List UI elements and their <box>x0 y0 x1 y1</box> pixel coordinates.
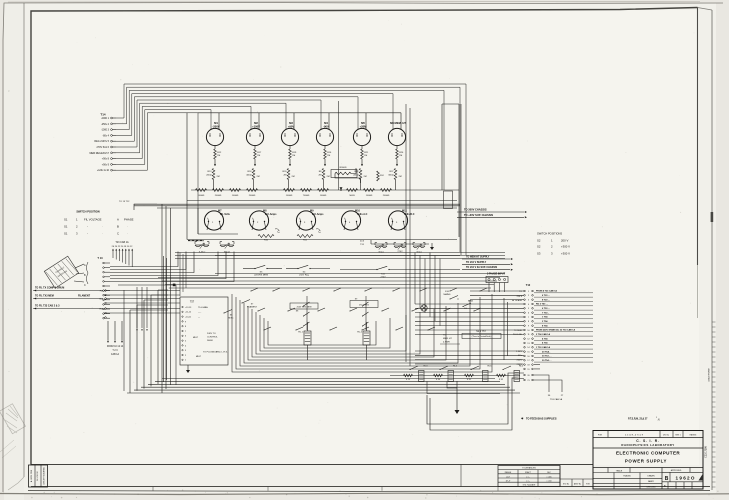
switch S7 FILAMENT <box>242 300 250 304</box>
svg-text:7000Ω: 7000Ω <box>303 195 310 197</box>
wire <box>493 283 495 293</box>
wire <box>371 243 429 245</box>
svg-text:TO FIL T23 CAB 2 & 3: TO FIL T23 CAB 2 & 3 <box>35 305 60 308</box>
terminal T12 pin 20 <box>524 374 526 376</box>
svg-text:-: - <box>8 308 9 311</box>
svg-text:FABRY: FABRY <box>648 480 655 483</box>
switch S9 270V REG <box>350 301 378 308</box>
meter M9 <box>296 211 315 230</box>
wire <box>360 180 362 191</box>
wire to T12 <box>415 359 524 361</box>
resistor R24 <box>377 171 380 181</box>
terminal T5T pin +10-11 <box>182 316 183 317</box>
terminal T12 pin 8 <box>524 321 526 323</box>
svg-text:-90V: -90V <box>323 125 329 129</box>
terminal T12 pin 11 <box>524 334 526 336</box>
terminal T5T pin +11-12 <box>182 311 183 312</box>
terminal T13 pin 12 <box>103 313 105 315</box>
svg-text:2M: 2M <box>364 176 367 178</box>
terminal T5T pin 2 <box>182 354 183 355</box>
wire <box>286 268 298 270</box>
wire <box>128 250 130 266</box>
svg-text:POWER SUPPLY: POWER SUPPLY <box>625 458 667 463</box>
switch S5 220VRS MEM <box>254 268 255 269</box>
wire cascade to T12 <box>419 256 421 309</box>
terminal T5T pin 5 <box>182 340 183 341</box>
wire web braid <box>236 297 480 369</box>
wire <box>307 345 309 360</box>
wire <box>365 296 367 330</box>
wire <box>122 250 124 263</box>
wire <box>289 146 291 149</box>
svg-text:2M: 2M <box>292 176 295 178</box>
switch contact <box>474 308 481 311</box>
wire web braid <box>232 294 492 372</box>
terminal T12 pin 18 <box>524 364 526 366</box>
svg-text:10″-4″: 10″-4″ <box>506 481 511 483</box>
switch contact <box>420 288 427 291</box>
svg-text:1M: 1M <box>217 155 220 157</box>
terminal T12 pin 17 <box>524 359 526 361</box>
svg-text:S3: S3 <box>537 252 541 256</box>
svg-text:FROM 10 12 14: FROM 10 12 14 <box>107 346 124 348</box>
wire T13 to metering pot <box>110 252 186 270</box>
resistor R 31 <box>465 374 474 377</box>
svg-text:-: - <box>8 168 9 171</box>
svg-text:+90v 9: +90v 9 <box>102 163 110 166</box>
wire T14 pin 3 to bus <box>116 90 444 190</box>
wire <box>115 250 117 260</box>
terminal T13 pin 2 <box>103 267 105 269</box>
switch contact <box>363 322 369 326</box>
wire <box>175 285 177 385</box>
wire <box>344 222 346 230</box>
wire to T53 <box>534 375 550 392</box>
resistor R10 <box>258 235 274 238</box>
svg-text:220VRS MEM: 220VRS MEM <box>254 275 268 277</box>
wire meter panel frame <box>186 113 188 240</box>
lamp <box>421 305 427 311</box>
wire <box>405 104 407 362</box>
terminal T12 pin 10 <box>524 329 526 331</box>
wire to T12 <box>415 325 524 327</box>
svg-text:+10-11: +10-11 <box>185 317 192 319</box>
wire web braid <box>256 312 420 354</box>
svg-text:400Ω: 400Ω <box>246 175 252 177</box>
terminal T13 lower pin <box>105 298 107 300</box>
svg-text:TO 15 T12: TO 15 T12 <box>119 201 130 203</box>
potentiometer 50(a) <box>375 242 377 244</box>
switch contact <box>450 288 457 291</box>
meter M5 <box>353 128 370 145</box>
wire bottom loop <box>430 378 524 430</box>
svg-text:M4: M4 <box>324 121 328 125</box>
wire <box>131 250 133 267</box>
svg-text:30 T54 - -: 30 T54 - - <box>542 359 552 362</box>
wire web horizontals <box>158 277 500 279</box>
svg-text:1 T53 CAB 1A: 1 T53 CAB 1A <box>536 346 550 349</box>
meter M10 <box>341 211 360 230</box>
wire to T53 <box>136 287 138 328</box>
svg-text:T53 CAB 1A: T53 CAB 1A <box>550 398 563 401</box>
svg-text:B: B <box>665 476 669 482</box>
wire web left verticals <box>129 310 131 393</box>
svg-text:RL.2: RL.2 <box>357 332 362 334</box>
svg-text:2M: 2M <box>327 176 330 178</box>
svg-text:·: · <box>102 225 103 229</box>
svg-text:-80v 4: -80v 4 <box>102 134 109 137</box>
resistor R 32 <box>497 374 506 377</box>
svg-text:S1: S1 <box>64 218 68 222</box>
wire bus vertical <box>460 104 462 255</box>
wire <box>361 159 363 166</box>
wire <box>125 250 127 264</box>
wire <box>324 159 326 166</box>
svg-text:2000Ω: 2000Ω <box>215 195 222 197</box>
svg-text:·: · <box>127 232 128 236</box>
terminal T5T pin 3 <box>182 350 183 351</box>
svg-text:S1: S1 <box>64 232 68 236</box>
terminal T13 pin 7 <box>103 290 105 292</box>
svg-text:TO FEED BIAS SUPPLIES: TO FEED BIAS SUPPLIES <box>526 418 557 421</box>
switch contact RL3 <box>410 366 418 370</box>
svg-text:2M: 2M <box>217 176 220 178</box>
svg-text:-250v 2: -250v 2 <box>101 123 110 126</box>
svg-text:+90v 8: +90v 8 <box>102 158 110 161</box>
switch contact <box>334 288 341 291</box>
svg-text:30 T53 - -: 30 T53 - - <box>542 356 552 358</box>
svg-text:M5: M5 <box>361 121 365 125</box>
resistor R25 300Ω <box>331 170 357 178</box>
terminal T13 pin 4 <box>103 276 105 278</box>
switch contact <box>304 322 310 326</box>
terminal T12 pin 15 <box>524 351 526 353</box>
wire cascade to T12 <box>434 256 436 322</box>
wire web left horizontals <box>130 309 168 311</box>
svg-text:4 T54: 4 T54 <box>542 337 548 340</box>
svg-text:2 T54 CAB 1A: 2 T54 CAB 1A <box>536 333 550 336</box>
wire <box>106 298 180 300</box>
wire to T53 <box>534 380 563 392</box>
svg-text:CAB 1A: CAB 1A <box>111 353 120 356</box>
meter M1 <box>206 128 223 145</box>
resistor R8 2M <box>322 169 325 180</box>
svg-text:FOR: FOR <box>598 434 603 436</box>
resistor R11 <box>297 235 313 238</box>
wire <box>324 146 326 149</box>
switch contact RL6 <box>503 366 511 370</box>
svg-text:D.C.Amps: D.C.Amps <box>265 213 277 216</box>
svg-text:Volts A.C: Volts A.C <box>357 213 368 216</box>
wire <box>254 159 256 166</box>
svg-text:PHASE: PHASE <box>124 218 134 222</box>
transformer S1(a)1 <box>220 241 222 243</box>
terminal T5T pin +12-13 <box>182 306 183 307</box>
svg-text:+12-13: +12-13 <box>185 307 192 309</box>
wire <box>118 284 176 286</box>
svg-text:C22/17396: C22/17396 <box>705 445 708 457</box>
switch contact <box>318 308 325 311</box>
wire meter feed bus <box>198 112 401 114</box>
svg-text:3 PHASE INPUT: 3 PHASE INPUT <box>487 273 506 276</box>
wire meter feed <box>293 113 295 130</box>
wire <box>503 298 505 360</box>
svg-text:RL.1: RL.1 <box>298 332 303 334</box>
svg-text:+11-12: +11-12 <box>185 312 192 314</box>
svg-text:R300Ω: R300Ω <box>340 167 347 169</box>
terminal T12 pin 14 <box>524 346 526 348</box>
switch contact <box>258 308 265 311</box>
svg-text:1M: 1M <box>257 155 260 157</box>
wire <box>118 250 120 261</box>
svg-text:No 4 T5T: No 4 T5T <box>476 331 486 333</box>
svg-text:200Ω: 200Ω <box>353 175 359 177</box>
wire meter feed <box>400 113 402 130</box>
wire meter feed <box>365 113 367 130</box>
resistor R5 1000Ω <box>284 189 295 192</box>
wire web braid <box>264 318 390 348</box>
wire <box>447 382 457 389</box>
svg-text:TO FIL TX3 MEM: TO FIL TX3 MEM <box>35 295 54 298</box>
terminal T13 pin 13 <box>103 317 105 319</box>
terminal T12 pin 3 <box>524 299 526 301</box>
terminal T12 pin 4 <box>524 303 526 305</box>
svg-text:TRACE: TRACE <box>616 469 623 472</box>
wire from T23 CAB 1A <box>121 321 123 340</box>
svg-text:APPROVED: APPROVED <box>671 469 682 472</box>
resistor R16 1M <box>324 149 327 159</box>
terminal T13 pin 8 <box>103 294 105 296</box>
terminal T12 pin 1 <box>524 290 526 292</box>
resistor R19 1M <box>289 149 292 159</box>
transformer S-M-O <box>188 240 204 242</box>
svg-text:7 T53 -: 7 T53 - <box>542 312 549 314</box>
svg-text:FIL VOLTAGE: FIL VOLTAGE <box>84 218 102 222</box>
ground <box>187 365 189 370</box>
svg-text:RANGE: RANGE <box>505 471 512 474</box>
svg-text:·: · <box>102 232 103 236</box>
svg-text:-2000 1: -2000 1 <box>101 117 110 120</box>
switch S4 210V Reg <box>297 268 298 269</box>
svg-text:B-1-52-34: B-1-52-34 <box>37 471 39 481</box>
terminal T13 pin 1 <box>103 262 105 264</box>
wire web top bus <box>175 252 505 254</box>
wire <box>396 159 398 166</box>
svg-text:1M: 1M <box>292 155 295 157</box>
potentiometer 50(a) <box>413 242 415 244</box>
wire to T12 <box>415 363 524 365</box>
wire <box>427 382 500 394</box>
svg-text:MELT: MELT <box>193 337 199 339</box>
revision triangle <box>699 474 704 481</box>
svg-text:2M: 2M <box>318 175 321 177</box>
svg-text:200 V: 200 V <box>561 239 568 243</box>
switch contact <box>303 288 310 291</box>
resistor R1 1000Ω <box>196 189 207 192</box>
svg-text:1 T54: 1 T54 <box>542 316 548 319</box>
wire web bottom bus <box>127 392 520 394</box>
terminal box T5T T14-CAB A <box>180 297 228 365</box>
resistor R3 1000Ω <box>230 189 241 192</box>
svg-text:MEM. HT: MEM. HT <box>443 338 453 340</box>
svg-text:1000Ω: 1000Ω <box>286 195 293 197</box>
svg-text:+300 V: +300 V <box>561 252 570 256</box>
svg-text:500Ω: 500Ω <box>349 195 355 197</box>
svg-text:REV 1: REV 1 <box>675 434 680 436</box>
wire <box>253 180 255 191</box>
switch contact <box>480 288 487 291</box>
svg-text:± .005: ± .005 <box>547 476 552 478</box>
svg-text:P.T.S,R,M, 23,& 27: P.T.S,R,M, 23,& 27 <box>628 419 648 421</box>
svg-text:TOLERANCES: TOLERANCES <box>522 467 536 470</box>
wire cascade to T12 <box>429 253 431 318</box>
svg-text:S1: S1 <box>64 225 68 229</box>
svg-text:TO: TO <box>443 335 446 337</box>
svg-text:2M: 2M <box>283 175 286 177</box>
switch contact <box>363 302 369 306</box>
svg-text:240V TO: 240V TO <box>207 333 216 335</box>
svg-text:- -: - - <box>198 317 200 319</box>
wire T14 pin 4 to bus <box>116 94 393 136</box>
resistor R14 1000Ω <box>364 189 375 192</box>
wire <box>106 302 180 304</box>
wire <box>106 290 180 292</box>
wire <box>306 296 308 330</box>
switch contact <box>304 312 310 316</box>
svg-text:S2: S2 <box>537 239 541 243</box>
svg-text:TO MEM HT SUPPLY: TO MEM HT SUPPLY <box>466 256 490 259</box>
wire bus vertical <box>338 101 340 190</box>
svg-text:1000Ω: 1000Ω <box>198 195 205 197</box>
terminal T12 pin 21 <box>524 379 526 381</box>
resistor R9 500Ω <box>347 189 358 192</box>
wire <box>75 264 84 268</box>
wire <box>214 146 216 149</box>
svg-text:TO FIL TX COMP & DRUM: TO FIL TX COMP & DRUM <box>35 287 64 290</box>
wire T13 to metering pot <box>110 252 194 273</box>
svg-text:RATING: RATING <box>690 433 697 436</box>
svg-text:·: · <box>127 225 128 229</box>
switch contact <box>428 327 435 330</box>
wire resistor bus <box>191 189 400 191</box>
svg-text:T14: T14 <box>100 113 106 117</box>
terminal T5T pin 8 <box>182 326 183 327</box>
svg-text:RADIOPHYSICS LABORATORY: RADIOPHYSICS LABORATORY <box>621 443 674 447</box>
svg-text:TRACED: TRACED <box>623 475 631 478</box>
switch contact <box>264 327 271 330</box>
svg-text:+90V: +90V <box>288 125 295 129</box>
resistor R7 1000Ω <box>318 189 329 192</box>
switch contact <box>382 308 389 311</box>
svg-text:M2: M2 <box>254 121 258 125</box>
svg-text:6 T53 - -: 6 T53 - - <box>542 308 550 310</box>
svg-text:TO 300V CHASSIS: TO 300V CHASSIS <box>464 208 487 212</box>
wire <box>391 222 393 230</box>
svg-text:200V REG MEM: 200V REG MEM <box>297 307 312 309</box>
svg-text:FIL Volts: FIL Volts <box>220 213 231 216</box>
svg-text:+120v & 10: +120v & 10 <box>97 169 110 172</box>
wire T14 pin 1 to bus <box>116 84 466 255</box>
wire to T12 <box>415 320 524 322</box>
wire <box>157 207 457 209</box>
svg-text:CONTROL: CONTROL <box>207 337 218 339</box>
svg-text:CIRCUIT MODIFIED: CIRCUIT MODIFIED <box>44 467 46 485</box>
wire meter feed <box>328 113 330 130</box>
resistor R 29 <box>404 374 413 377</box>
svg-text:T 2 3: T 2 3 <box>112 350 118 352</box>
resistor R12 1M <box>214 149 217 159</box>
terminal T13 pin 6 <box>103 285 105 287</box>
record cells <box>559 466 561 487</box>
wire T13 to metering pot <box>110 252 218 276</box>
switch contact <box>251 288 258 291</box>
wire <box>106 294 180 296</box>
meter M8 <box>249 211 268 230</box>
transformer FILAMENT METERING <box>44 256 78 288</box>
wire meter feed <box>258 113 260 130</box>
svg-text:MELT: MELT <box>196 356 202 358</box>
svg-text:M1: M1 <box>214 121 218 125</box>
svg-text:Volts D.C: Volts D.C <box>404 213 415 216</box>
svg-text:1M: 1M <box>327 155 330 157</box>
svg-text:1000Ω: 1000Ω <box>320 195 327 197</box>
relay coil RL4 <box>448 371 454 382</box>
component box <box>444 191 453 209</box>
resistor R 30 <box>434 374 443 377</box>
svg-text:DR. No: DR. No <box>663 434 669 436</box>
wire to T12 <box>415 303 524 305</box>
wire to T12 <box>470 294 524 296</box>
wire to T53 <box>146 287 148 328</box>
switch contact <box>296 327 303 330</box>
wire web braid <box>244 303 458 363</box>
wire <box>390 375 520 377</box>
wire to T12 <box>415 307 524 309</box>
wire to T12 <box>415 354 524 356</box>
svg-text:SWITCH POSITION: SWITCH POSITION <box>76 210 99 214</box>
svg-text:ASSY No: ASSY No <box>574 483 581 486</box>
svg-text:210V Reg: 210V Reg <box>299 275 310 277</box>
switch contact <box>288 308 295 311</box>
wire cascade to T12 <box>439 259 441 326</box>
switch contact <box>393 288 400 291</box>
switch contact RL4 <box>440 366 448 370</box>
svg-text:ELECTRONIC COMPUTER: ELECTRONIC COMPUTER <box>616 451 680 456</box>
terminal T5T pin 9 <box>182 321 183 322</box>
terminal T5T pin 7 <box>182 330 183 331</box>
wire <box>207 222 209 230</box>
wire web braid <box>252 309 434 357</box>
svg-text:SWITCH POSITIONS: SWITCH POSITIONS <box>537 232 562 236</box>
terminal T5T pin 1 <box>182 359 183 360</box>
svg-text:T5T: T5T <box>190 301 195 304</box>
wire <box>498 283 500 293</box>
terminal T12 pin 5 <box>524 308 526 310</box>
wire T14 pin 2 to bus <box>116 87 460 252</box>
wire to T12 <box>415 329 524 331</box>
switch contact <box>396 327 403 330</box>
svg-text:1 9 6 2 O: 1 9 6 2 O <box>676 476 695 481</box>
resistor R20 2M <box>287 169 290 180</box>
svg-text:8 T23 - -: 8 T23 - - <box>542 299 550 301</box>
wire <box>252 222 254 230</box>
svg-text:±1.0″: ±1.0″ <box>506 476 510 478</box>
wire <box>361 146 363 149</box>
meter M6 <box>388 128 405 145</box>
wire from T23 CAB 1A <box>107 321 109 340</box>
svg-text:A 19356 CRS: A 19356 CRS <box>30 469 33 482</box>
resistor R15 2000Ω <box>381 189 392 192</box>
